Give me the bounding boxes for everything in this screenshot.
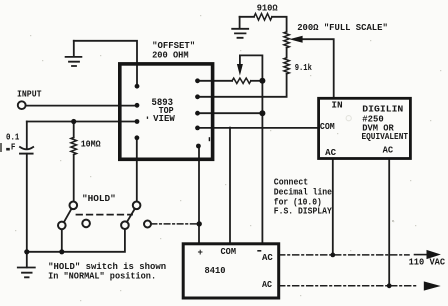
svg-text:COM: COM (221, 247, 237, 257)
svg-text:10MΩ: 10MΩ (81, 139, 102, 149)
svg-text:Decimal line: Decimal line (274, 187, 332, 197)
svg-text:Connect: Connect (274, 178, 308, 188)
svg-text:EQUIVALENT: EQUIVALENT (362, 132, 409, 142)
svg-text:COM: COM (320, 122, 335, 132)
svg-text:200 OHM: 200 OHM (152, 51, 189, 61)
svg-text:"OFFSET": "OFFSET" (152, 41, 195, 51)
svg-text:8410: 8410 (205, 266, 226, 276)
svg-text:"HOLD": "HOLD" (82, 194, 116, 204)
svg-text:910Ω: 910Ω (257, 4, 279, 14)
svg-text:AC: AC (262, 252, 273, 263)
svg-text:0.1: 0.1 (6, 133, 20, 143)
svg-text:INPUT: INPUT (17, 90, 42, 100)
svg-text:F: F (11, 143, 16, 153)
svg-text:IN: IN (331, 100, 342, 110)
svg-text:DIGILIN: DIGILIN (362, 104, 403, 114)
svg-text:F.S. DISPLAY: F.S. DISPLAY (274, 207, 333, 217)
svg-text:VIEW: VIEW (153, 114, 175, 124)
svg-text:AC: AC (262, 280, 273, 290)
svg-text:110 VAC: 110 VAC (409, 257, 446, 267)
svg-text:AC: AC (325, 148, 336, 158)
svg-text:"HOLD" switch is shown: "HOLD" switch is shown (48, 262, 166, 272)
svg-text:200Ω "FULL SCALE": 200Ω "FULL SCALE" (297, 23, 388, 33)
svg-text:AC: AC (383, 146, 394, 156)
svg-text:9.1k: 9.1k (295, 63, 313, 73)
svg-text:+: + (198, 248, 203, 258)
svg-text:In "NORMAL" position.: In "NORMAL" position. (48, 272, 156, 282)
